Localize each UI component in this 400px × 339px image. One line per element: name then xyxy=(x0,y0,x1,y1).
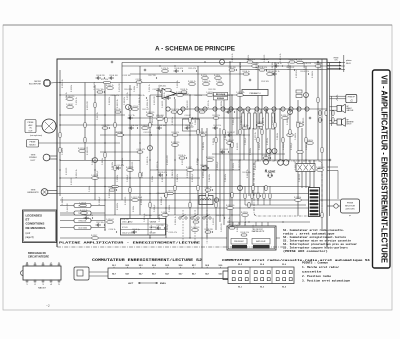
svg-text:C-17 100: C-17 100 xyxy=(131,106,138,108)
svg-text:C-101 2.2k: C-101 2.2k xyxy=(131,197,140,199)
svg-text:S1-3: S1-3 xyxy=(260,287,264,289)
svg-text:C-13 1µF: C-13 1µF xyxy=(233,118,235,125)
svg-text:S2-3: S2-3 xyxy=(139,265,143,267)
svg-text:R-108 0.02: R-108 0.02 xyxy=(303,63,312,65)
svg-text:R-102 47: R-102 47 xyxy=(228,132,235,134)
svg-text:R-11 47: R-11 47 xyxy=(186,167,192,169)
svg-text:5: 5 xyxy=(59,284,60,286)
svg-text:R-15 10k: R-15 10k xyxy=(71,85,73,92)
svg-text:R-12 47k: R-12 47k xyxy=(109,191,111,198)
svg-text:C-14 1µ: C-14 1µ xyxy=(193,219,199,221)
svg-text:C-107 1k: C-107 1k xyxy=(206,92,213,94)
svg-text:R-19 4.7k: R-19 4.7k xyxy=(306,142,308,150)
svg-text:C-18 10k: C-18 10k xyxy=(295,133,297,140)
svg-text:PREAMPLI: PREAMPLI xyxy=(249,92,260,95)
svg-text:S3. Interrupteur mise en servi: S3. Interrupteur mise en service cassett… xyxy=(283,239,352,243)
svg-text:S2-5: S2-5 xyxy=(165,265,169,267)
svg-text:C-112 4.7k: C-112 4.7k xyxy=(111,95,120,97)
svg-text:R-104 100: R-104 100 xyxy=(110,75,118,77)
svg-text:R-106 2.2k: R-106 2.2k xyxy=(241,232,250,234)
svg-text:C-112 47k: C-112 47k xyxy=(225,174,227,182)
svg-text:page 6): page 6) xyxy=(26,236,34,239)
svg-text:C-106 220: C-106 220 xyxy=(141,125,149,127)
svg-text:COMMUTATEUR arret radio/casset: COMMUTATEUR arret radio/cassette-radio-a… xyxy=(222,258,370,262)
svg-text:R-18 4.7k: R-18 4.7k xyxy=(253,193,261,195)
svg-text:INCORPORE: INCORPORE xyxy=(29,84,42,86)
svg-text:C-116 47k: C-116 47k xyxy=(177,174,179,182)
svg-text:R-154 2.2k: R-154 2.2k xyxy=(117,99,119,108)
svg-text:R-158 220: R-158 220 xyxy=(87,147,89,155)
svg-text:C-117 4.7k: C-117 4.7k xyxy=(85,215,94,217)
svg-text:R-12 10k: R-12 10k xyxy=(97,222,104,224)
svg-text:R-15 4.7k: R-15 4.7k xyxy=(229,217,231,225)
svg-text:POINTS : Commun: POINTS : Commun xyxy=(302,262,328,265)
svg-text:R-123 1k: R-123 1k xyxy=(241,212,248,214)
svg-text:C-108 220: C-108 220 xyxy=(316,167,324,169)
svg-text:C-11 10k: C-11 10k xyxy=(242,125,249,127)
svg-text:R-135 4.7k: R-135 4.7k xyxy=(159,172,168,174)
svg-text:S4-7: S4-7 xyxy=(139,273,143,276)
svg-text:R-14 2.2k: R-14 2.2k xyxy=(125,89,133,91)
svg-text:R-15 0.022: R-15 0.022 xyxy=(87,101,89,110)
svg-text:R-159 2.2k: R-159 2.2k xyxy=(62,79,64,88)
svg-text:C-19 1µF: C-19 1µF xyxy=(283,143,285,150)
svg-text:C-14 47k: C-14 47k xyxy=(62,148,64,155)
svg-text:C-12 220: C-12 220 xyxy=(157,225,164,227)
svg-text:R-138 220: R-138 220 xyxy=(205,229,213,231)
svg-text:R-15 10k: R-15 10k xyxy=(145,215,152,217)
svg-text:C-17 2.2k: C-17 2.2k xyxy=(127,92,129,100)
svg-text:C-16 1µF: C-16 1µF xyxy=(127,175,129,182)
svg-text:S4-7: S4-7 xyxy=(152,273,156,276)
svg-text:C-113 2.2k: C-113 2.2k xyxy=(147,156,149,165)
svg-text:R-17 1k: R-17 1k xyxy=(129,115,135,117)
svg-text:C-114 4.7k: C-114 4.7k xyxy=(137,149,146,151)
svg-text:R-12 47k: R-12 47k xyxy=(233,163,235,170)
svg-text:C-13 1k: C-13 1k xyxy=(89,186,91,192)
svg-text:R-13 10k: R-13 10k xyxy=(294,197,301,199)
svg-text:PRISE: PRISE xyxy=(28,122,34,124)
svg-text:R-128 220: R-128 220 xyxy=(206,157,214,159)
svg-text:R-153 220: R-153 220 xyxy=(132,162,134,170)
svg-text:R-152 1k: R-152 1k xyxy=(221,101,223,108)
svg-text:C-19 0.02: C-19 0.02 xyxy=(106,219,114,221)
svg-text:R-134 1k: R-134 1k xyxy=(186,125,193,127)
svg-text:S4-7: S4-7 xyxy=(125,273,129,276)
svg-text:C-114 0.022: C-114 0.022 xyxy=(187,100,189,110)
svg-text:1: 1 xyxy=(27,284,28,286)
svg-text:C-106 100: C-106 100 xyxy=(166,190,174,192)
svg-text:R-151 1µF: R-151 1µF xyxy=(161,197,163,205)
svg-text:R-12 4.7k: R-12 4.7k xyxy=(172,132,180,134)
svg-text:C-112 220: C-112 220 xyxy=(299,174,301,182)
svg-text:C-112 10k: C-112 10k xyxy=(240,62,242,70)
svg-text:C-17 4.7k: C-17 4.7k xyxy=(76,97,78,105)
svg-text:C-115 4.7k: C-115 4.7k xyxy=(169,232,178,234)
svg-text:S1-2: S1-2 xyxy=(238,264,242,266)
svg-text:R-19 47: R-19 47 xyxy=(91,235,97,237)
svg-text:R-15 0.02: R-15 0.02 xyxy=(287,67,295,69)
svg-text:R-158 47k: R-158 47k xyxy=(152,117,154,125)
svg-text:S1. Commutateur arret radio/ca: S1. Commutateur arret radio/cassette- xyxy=(283,228,345,232)
svg-text:S4-7: S4-7 xyxy=(165,273,169,276)
svg-text:C-15 47k: C-15 47k xyxy=(169,205,171,212)
svg-text:C-112 1k: C-112 1k xyxy=(102,158,104,165)
svg-text:C-17 10k: C-17 10k xyxy=(117,175,119,182)
svg-text:R-16 1k: R-16 1k xyxy=(133,206,135,212)
svg-text:C-16 10k: C-16 10k xyxy=(79,202,86,204)
svg-text:C-12 1µF: C-12 1µF xyxy=(154,205,156,212)
svg-text:VII - AMPLIFICATEUR - ENREGI: VII - AMPLIFICATEUR - ENREGISTREMENT-LEC… xyxy=(380,75,389,263)
svg-text:DROIT: DROIT xyxy=(347,123,352,125)
svg-text:R-15 100: R-15 100 xyxy=(78,148,85,150)
svg-text:S2-4: S2-4 xyxy=(152,264,156,267)
svg-text:R-17 10k: R-17 10k xyxy=(97,89,104,91)
svg-text:R-12 220: R-12 220 xyxy=(71,178,73,185)
svg-text:R-155 47k: R-155 47k xyxy=(296,70,298,78)
svg-text:C1122 a D1104: C1122 a D1104 xyxy=(122,233,135,235)
svg-text:R-17 2.2k: R-17 2.2k xyxy=(208,100,210,108)
svg-text:S4-7: S4-7 xyxy=(192,273,196,276)
svg-text:C-12 1k: C-12 1k xyxy=(142,172,144,178)
svg-text:R-15 47: R-15 47 xyxy=(143,109,149,111)
svg-text:C-113 10k: C-113 10k xyxy=(123,75,131,77)
svg-text:HP: HP xyxy=(347,106,349,108)
svg-text:R-123 220: R-123 220 xyxy=(171,142,179,144)
svg-text:R-14 10k: R-14 10k xyxy=(117,203,119,210)
svg-text:S2-6: S2-6 xyxy=(179,265,183,267)
svg-text:IC 101: IC 101 xyxy=(122,227,128,229)
svg-text:PRISE: PRISE xyxy=(334,58,339,60)
svg-text:R-15 4.7k: R-15 4.7k xyxy=(315,63,323,65)
svg-text:C-17 0.022: C-17 0.022 xyxy=(119,83,121,92)
svg-text:NIVEAU: NIVEAU xyxy=(217,97,225,100)
svg-text:R931 18k: R931 18k xyxy=(79,221,87,223)
svg-text:R-103 4.7k: R-103 4.7k xyxy=(175,68,184,70)
svg-text:R-138 4.7k: R-138 4.7k xyxy=(259,67,268,69)
svg-text:C-116 10k: C-116 10k xyxy=(209,174,211,182)
svg-text:R-151 4.7k: R-151 4.7k xyxy=(147,99,149,108)
svg-text:2: 2 xyxy=(35,284,36,286)
svg-text:1. Marche arret radio/: 1. Marche arret radio/ xyxy=(302,265,340,269)
svg-text:R-17 47k: R-17 47k xyxy=(151,225,153,232)
svg-text:CIRCUIT INTEGRE: CIRCUIT INTEGRE xyxy=(28,255,49,258)
svg-text:S4-7: S4-7 xyxy=(112,273,116,276)
svg-text:R-159 2.2k: R-159 2.2k xyxy=(76,169,78,178)
svg-text:S2-8: S2-8 xyxy=(205,265,209,267)
svg-text:C-17 100: C-17 100 xyxy=(116,132,123,134)
svg-text:4: 4 xyxy=(51,283,52,286)
svg-text:(voir: (voir xyxy=(26,232,31,235)
svg-text:R-19 0.02: R-19 0.02 xyxy=(226,140,234,142)
svg-text:R-11 2.2k: R-11 2.2k xyxy=(237,224,239,232)
svg-text:R-133 10k: R-133 10k xyxy=(243,172,251,174)
svg-text:PRISE HP: PRISE HP xyxy=(348,96,355,98)
svg-text:R-157 1µF: R-157 1µF xyxy=(203,170,205,178)
svg-text:R-151 1µF: R-151 1µF xyxy=(217,162,219,170)
svg-text:C901 - 9762: C901 - 9762 xyxy=(122,222,132,224)
svg-text:C-116 4.7k: C-116 4.7k xyxy=(247,59,256,61)
svg-text:R-18 10k: R-18 10k xyxy=(201,165,208,167)
svg-text:C-115 4.7k: C-115 4.7k xyxy=(232,53,234,62)
svg-text:R-137 47: R-137 47 xyxy=(217,215,224,217)
svg-text:R-133 10k: R-133 10k xyxy=(261,59,269,61)
svg-text:S1-1: S1-1 xyxy=(238,287,242,289)
svg-text:C-19 2.2k: C-19 2.2k xyxy=(223,95,231,97)
svg-text:(PRISE AUX connector): (PRISE AUX connector) xyxy=(283,249,328,253)
svg-text:platine: platine xyxy=(346,59,352,62)
svg-text:~2: ~2 xyxy=(46,304,50,308)
svg-text:C-113 47k: C-113 47k xyxy=(124,97,126,105)
svg-text:R-134 1k: R-134 1k xyxy=(275,63,282,65)
svg-text:S4. Interrupteur preselection: S4. Interrupteur preselection pres au se… xyxy=(283,242,357,246)
svg-text:R-12 220: R-12 220 xyxy=(66,168,68,175)
svg-text:C-113 1µF: C-113 1µF xyxy=(167,224,169,232)
svg-text:C-19 2.2k: C-19 2.2k xyxy=(144,132,152,134)
svg-text:S1-4: S1-4 xyxy=(260,263,264,266)
svg-text:R-151 1µF: R-151 1µF xyxy=(192,174,194,182)
svg-text:C-19 4.7k: C-19 4.7k xyxy=(66,92,68,100)
svg-text:C-116 1k: C-116 1k xyxy=(109,229,116,231)
svg-text:C-15 2.2k: C-15 2.2k xyxy=(263,117,265,125)
svg-text:C-12 4.7k: C-12 4.7k xyxy=(149,84,151,92)
svg-text:cassette: cassette xyxy=(302,271,322,274)
svg-text:C-119 47k: C-119 47k xyxy=(62,197,64,205)
svg-text:S2. Commutateur enregistrement: S2. Commutateur enregistrement-lecture xyxy=(283,235,347,239)
svg-text:R-14 100: R-14 100 xyxy=(157,115,164,117)
svg-text:R-156 0.022: R-156 0.022 xyxy=(239,160,241,170)
svg-text:R-106 47: R-106 47 xyxy=(199,109,206,111)
svg-text:ENRG: ENRG xyxy=(160,283,166,285)
svg-text:PRISE: PRISE xyxy=(347,203,354,205)
svg-text:C-11 4.7k: C-11 4.7k xyxy=(117,165,125,167)
svg-text:C-12 1µ: C-12 1µ xyxy=(136,79,142,81)
svg-text:C-115 4.7k: C-115 4.7k xyxy=(280,53,282,62)
svg-text:R-13 2.2k: R-13 2.2k xyxy=(214,125,222,127)
svg-text:R-154 0.022: R-154 0.022 xyxy=(255,160,257,170)
svg-text:R-105 4.7k: R-105 4.7k xyxy=(301,71,310,73)
svg-text:R-17 220: R-17 220 xyxy=(253,225,255,232)
svg-text:R-131 1k: R-131 1k xyxy=(181,89,188,91)
svg-text:R-102 1µ: R-102 1µ xyxy=(133,229,140,231)
svg-text:R-152 220: R-152 220 xyxy=(125,197,127,205)
svg-text:R-18 47k: R-18 47k xyxy=(312,71,314,78)
svg-text:radio ; arret automatique: radio ; arret automatique xyxy=(283,232,335,236)
svg-text:R-16 220: R-16 220 xyxy=(303,118,305,125)
svg-text:2. Position radio: 2. Position radio xyxy=(302,274,332,278)
svg-text:C104 1000: C104 1000 xyxy=(78,228,87,230)
svg-text:S2-7: S2-7 xyxy=(192,265,196,267)
svg-text:3. Position arret automatique: 3. Position arret automatique xyxy=(302,279,350,283)
svg-text:R-126 220: R-126 220 xyxy=(146,112,154,114)
svg-text:R-153 1k: R-153 1k xyxy=(197,158,199,165)
svg-text:R-13 220: R-13 220 xyxy=(237,143,239,150)
svg-text:C102 16V: C102 16V xyxy=(261,81,270,83)
svg-text:C-113 220: C-113 220 xyxy=(102,125,110,127)
svg-text:C-116 10k: C-116 10k xyxy=(203,142,205,150)
svg-text:R-18 1µF: R-18 1µF xyxy=(287,118,289,125)
svg-text:C-112 1k: C-112 1k xyxy=(205,187,212,189)
svg-text:R-108 220: R-108 220 xyxy=(97,75,105,77)
svg-text:LECT: LECT xyxy=(128,283,134,285)
svg-text:C-11 1k: C-11 1k xyxy=(134,86,136,92)
svg-text:R-18 1k: R-18 1k xyxy=(139,95,145,97)
svg-text:C-12 2.2k: C-12 2.2k xyxy=(177,80,179,88)
svg-text:COMMUTATEUR ENREGISTREMENT/LEC: COMMUTATEUR ENREGISTREMENT/LECTURE S2 xyxy=(92,258,202,262)
svg-text:R-16 4.7k: R-16 4.7k xyxy=(106,85,114,87)
svg-text:R-153 4.7k: R-153 4.7k xyxy=(141,196,143,205)
svg-text:R-108 220: R-108 220 xyxy=(121,219,129,221)
svg-text:C-106 47: C-106 47 xyxy=(66,104,73,106)
svg-text:PLATINE AMPLIFICATEUR - ENREG: PLATINE AMPLIFICATEUR - ENREGISTREMENT/L… xyxy=(59,240,200,244)
svg-text:RE-R: RE-R xyxy=(346,63,351,65)
svg-text:RT2 3.3k: RT2 3.3k xyxy=(101,79,108,81)
svg-text:C-101 2.2k: C-101 2.2k xyxy=(202,81,211,83)
svg-text:C-119 1k: C-119 1k xyxy=(277,133,279,140)
svg-text:R-156 10k: R-156 10k xyxy=(172,117,174,125)
svg-text:C-15 0.022: C-15 0.022 xyxy=(221,223,223,232)
svg-text:S2-9: S2-9 xyxy=(219,265,223,267)
svg-text:C-15 4.7k: C-15 4.7k xyxy=(159,214,161,222)
svg-text:R-158 4.7k: R-158 4.7k xyxy=(175,216,177,225)
svg-text:R-19 1k: R-19 1k xyxy=(214,75,220,77)
svg-text:ENREGISTR: ENREGISTR xyxy=(27,192,39,194)
svg-text:C-114 220: C-114 220 xyxy=(245,217,247,225)
svg-text:R-151 0.022: R-151 0.022 xyxy=(167,155,169,165)
svg-text:C-115 1k: C-115 1k xyxy=(273,71,280,73)
svg-text:R-11 2.2k: R-11 2.2k xyxy=(80,210,88,212)
svg-text:R-155 1k: R-155 1k xyxy=(267,138,269,145)
svg-text:C-16 2.2k: C-16 2.2k xyxy=(97,112,99,120)
svg-text:R-12 2.2k: R-12 2.2k xyxy=(213,115,221,117)
svg-text:HP: HP xyxy=(347,119,349,121)
svg-text:R-12 47k: R-12 47k xyxy=(187,171,189,178)
svg-text:R-11 220: R-11 220 xyxy=(209,89,216,91)
svg-text:R-13 0.022: R-13 0.022 xyxy=(154,96,156,105)
svg-text:R-12 4.7k: R-12 4.7k xyxy=(281,115,289,117)
svg-text:C-118 4.7k: C-118 4.7k xyxy=(172,169,174,178)
svg-text:C-11 0.02: C-11 0.02 xyxy=(227,109,235,111)
svg-text:C-15 220: C-15 220 xyxy=(213,218,215,225)
svg-text:R-134 2.2k: R-134 2.2k xyxy=(130,125,139,127)
svg-text:R-17 1k: R-17 1k xyxy=(201,75,207,77)
svg-text:PRECEDENT: PRECEDENT xyxy=(234,241,244,243)
svg-text:C-102 100: C-102 100 xyxy=(191,227,199,229)
svg-text:C-18 1µF: C-18 1µF xyxy=(97,171,99,178)
svg-text:C-16 0.02: C-16 0.02 xyxy=(157,193,165,195)
svg-text:C-18 47: C-18 47 xyxy=(185,115,191,117)
svg-text:S2-2: S2-2 xyxy=(125,265,129,267)
svg-text:C-117 10k: C-117 10k xyxy=(153,89,161,91)
svg-text:C-15 1k: C-15 1k xyxy=(216,81,222,83)
svg-text:S2-1: S2-1 xyxy=(112,265,116,267)
svg-text:A - SCHEMA DE PRINCIPE: A - SCHEMA DE PRINCIPE xyxy=(155,47,235,53)
svg-text:C-17 4.7k: C-17 4.7k xyxy=(161,68,169,70)
svg-text:C-116 1µ: C-116 1µ xyxy=(263,155,270,157)
svg-text:C-107 4.7k: C-107 4.7k xyxy=(236,92,245,94)
svg-text:C-13 1k: C-13 1k xyxy=(115,109,121,111)
svg-text:C-18 4.7k: C-18 4.7k xyxy=(195,117,197,125)
svg-text:C-11 47k: C-11 47k xyxy=(259,143,261,150)
svg-text:R-151 1µF: R-151 1µF xyxy=(99,197,101,205)
svg-text:C-16 220: C-16 220 xyxy=(162,101,164,108)
svg-text:C-19 1µF: C-19 1µF xyxy=(245,138,247,145)
svg-text:R-104 1µ: R-104 1µ xyxy=(243,71,250,73)
svg-text:R-128 100: R-128 100 xyxy=(226,205,234,207)
svg-text:YA2948: YA2948 xyxy=(150,221,157,224)
svg-text:C-11 0.022: C-11 0.022 xyxy=(295,161,297,170)
svg-text:PRISE: PRISE xyxy=(30,142,36,144)
svg-text:R-106 4.7k: R-106 4.7k xyxy=(109,187,118,189)
svg-text:S1-5: S1-5 xyxy=(282,287,286,289)
svg-text:C-11 220: C-11 220 xyxy=(229,67,236,69)
svg-text:R-13 2.2k: R-13 2.2k xyxy=(195,95,203,97)
svg-text:3: 3 xyxy=(43,284,44,286)
svg-text:R-11 4.7k: R-11 4.7k xyxy=(189,68,197,70)
svg-text:S4-7: S4-7 xyxy=(179,273,183,276)
svg-text:R-14 4.7k: R-14 4.7k xyxy=(188,81,196,83)
svg-text:C-14 0.022: C-14 0.022 xyxy=(67,203,69,212)
svg-text:LECT: LECT xyxy=(31,160,37,162)
svg-text:C-12 0.02: C-12 0.02 xyxy=(221,149,229,151)
svg-text:S4-7: S4-7 xyxy=(205,273,209,276)
svg-text:220V 50Hz: 220V 50Hz xyxy=(345,209,354,211)
svg-text:C-15 0.02: C-15 0.02 xyxy=(167,95,175,97)
svg-text:HA1367: HA1367 xyxy=(38,287,47,290)
svg-text:S1-6: S1-6 xyxy=(282,264,286,266)
svg-text:C-14 1k: C-14 1k xyxy=(161,212,167,214)
svg-text:C-118 10k: C-118 10k xyxy=(158,125,166,127)
svg-text:C-114 2.2k: C-114 2.2k xyxy=(229,225,238,227)
svg-text:R-136 1µ: R-136 1µ xyxy=(179,155,186,157)
svg-text:R-102 4.7k: R-102 4.7k xyxy=(171,109,180,111)
svg-text:SECTEUR: SECTEUR xyxy=(345,206,355,208)
svg-text:S4-7: S4-7 xyxy=(219,273,223,276)
svg-text:R-154 10k: R-154 10k xyxy=(109,97,111,105)
svg-text:R-157 2.2k: R-157 2.2k xyxy=(157,161,159,170)
svg-text:MICRO: MICRO xyxy=(29,145,36,147)
svg-text:S5. Interrupteur coupure hauts: S5. Interrupteur coupure hauts-parleurs xyxy=(283,246,348,250)
svg-text:R-11 10k: R-11 10k xyxy=(250,148,252,155)
svg-text:C-17 1k: C-17 1k xyxy=(152,176,154,182)
svg-text:R-108 47: R-108 47 xyxy=(200,132,207,134)
svg-text:DE MESURES: DE MESURES xyxy=(26,226,46,230)
svg-text:R-17 220: R-17 220 xyxy=(149,75,156,77)
svg-text:C-18 0.022: C-18 0.022 xyxy=(241,116,243,125)
svg-text:R-108 0.02: R-108 0.02 xyxy=(289,59,298,61)
svg-text:R-13 1µF: R-13 1µF xyxy=(291,143,293,150)
svg-text:C-19 4.7k: C-19 4.7k xyxy=(139,97,141,105)
